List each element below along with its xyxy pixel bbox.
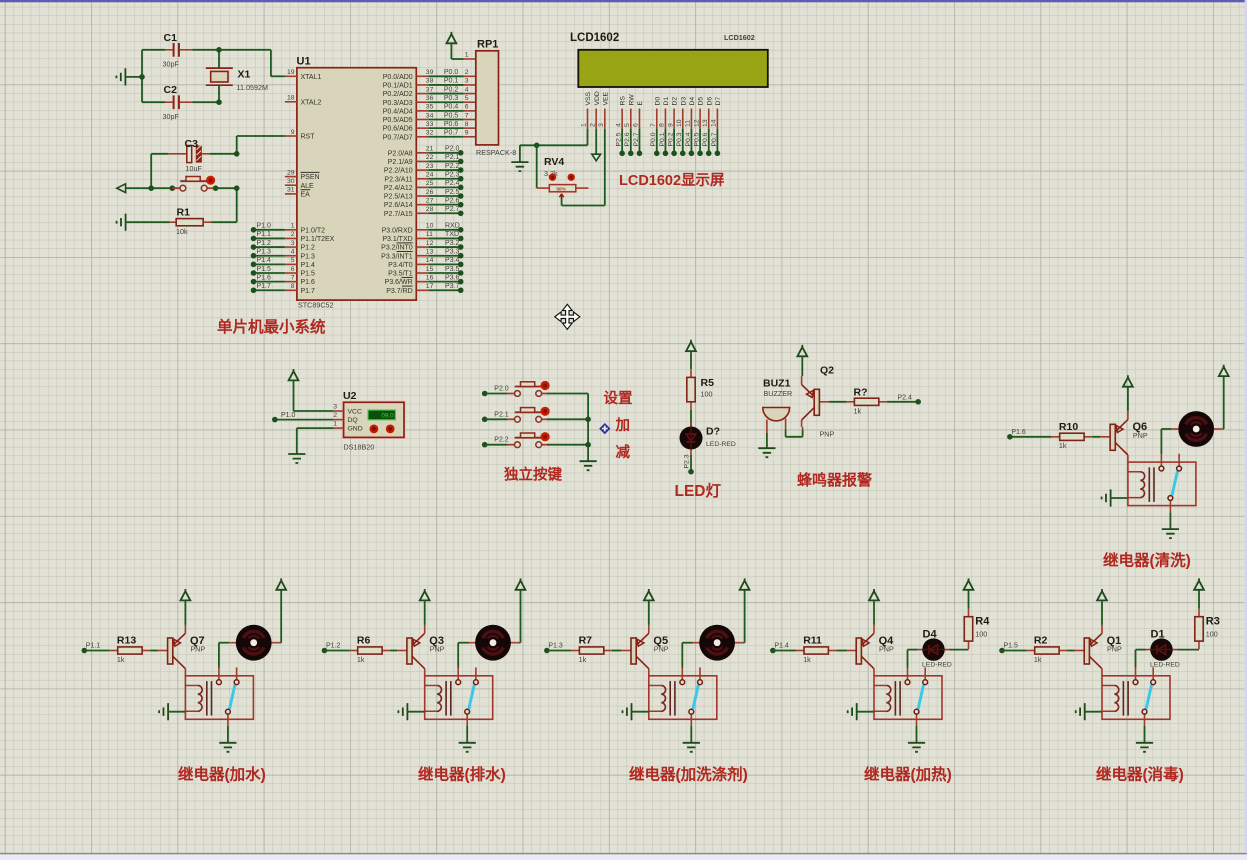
svg-text:单片机最小系统: 单片机最小系统: [217, 317, 326, 336]
wire Q3 collector to relay coil: [424, 675, 426, 677]
transistor Q6 (PNP): [1100, 411, 1128, 462]
push button P2.2: [507, 432, 550, 448]
svg-text:10: 10: [676, 119, 683, 127]
svg-text:R2: R2: [1034, 635, 1048, 647]
svg-text:29: 29: [287, 169, 295, 176]
svg-text:P1.7: P1.7: [301, 288, 316, 295]
svg-text:D0: D0: [654, 97, 661, 106]
wire net P1.4: [770, 643, 796, 654]
svg-text:P2.2: P2.2: [494, 437, 509, 444]
svg-text:1k: 1k: [1034, 655, 1042, 664]
transistor Q3 (PNP): [397, 625, 425, 676]
power arrow above U2: [289, 369, 299, 380]
svg-text:P3.4: P3.4: [445, 257, 460, 264]
wire Q7 collector to relay coil: [184, 675, 186, 677]
RV4 right lead: [576, 187, 589, 189]
relay 排水: [425, 667, 493, 726]
svg-text:PNP: PNP: [820, 430, 835, 439]
wire net P1.3 to U1.4: [251, 249, 285, 259]
svg-text:8: 8: [465, 121, 469, 128]
svg-text:7: 7: [650, 123, 657, 127]
wire R2 to Q1 base: [1067, 650, 1074, 652]
resistor R?: [846, 398, 886, 405]
motor at relay 加洗涤剂: [693, 625, 744, 661]
U1 pin 16 P3.6/WR: [385, 274, 434, 286]
LCD pin 14 D7: [711, 97, 722, 157]
wire button P2.2 to bus: [547, 444, 588, 446]
svg-text:10: 10: [426, 223, 434, 230]
resistor R2: [1027, 647, 1067, 654]
wire net RXD: [428, 223, 463, 233]
svg-text:28: 28: [426, 206, 434, 213]
wire net P1.7 to U1.8: [251, 283, 285, 293]
U1 pin 1 P1.0/T2: [285, 223, 325, 235]
svg-text:P2.3: P2.3: [445, 172, 460, 179]
svg-text:1: 1: [333, 421, 337, 428]
U1 pin 28 P2.7/A15: [384, 206, 434, 218]
svg-text:R13: R13: [117, 635, 136, 647]
svg-text:继电器(清洗): 继电器(清洗): [1103, 551, 1191, 570]
svg-text:P2.0: P2.0: [445, 146, 460, 153]
power arrow above Q4: [869, 589, 879, 600]
wire power to Q1 emitter: [1101, 600, 1103, 625]
svg-text:D3: D3: [680, 97, 687, 106]
U1 pin 3 P1.2: [285, 240, 315, 252]
svg-text:RST: RST: [301, 134, 316, 141]
wire net P1.1 to U1.2: [251, 231, 285, 241]
wire P0.1 U1 to RP1 pin 3: [428, 78, 476, 85]
wire C3 left branch down: [150, 154, 152, 188]
node at X1 bottom: [216, 99, 222, 105]
svg-text:P1.5: P1.5: [301, 271, 316, 278]
svg-text:15: 15: [426, 266, 434, 273]
svg-text:P2.4: P2.4: [898, 394, 913, 401]
wire net P1.6 to U1.7: [251, 274, 285, 284]
ground (left) at relay coil: [623, 703, 632, 720]
svg-text:EA: EA: [301, 192, 311, 199]
transistor Q4 (PNP): [847, 625, 875, 676]
wire D1 to R3: [1178, 649, 1200, 651]
wire P0.2 U1 to RP1 pin 4: [428, 86, 476, 93]
wire X1 node to XTAL1: [219, 49, 271, 51]
wire P0.4 U1 to RP1 pin 6: [428, 104, 476, 111]
wire R13 to Q7 base: [150, 650, 158, 652]
svg-text:5: 5: [291, 257, 295, 264]
svg-text:P2.2/A10: P2.2/A10: [384, 168, 413, 175]
svg-text:13: 13: [702, 119, 709, 127]
svg-text:13: 13: [426, 249, 434, 256]
svg-text:P1.4: P1.4: [774, 643, 789, 650]
svg-text:6: 6: [291, 266, 295, 273]
U1 pin 35 P0.4/AD4: [383, 104, 434, 116]
ground (left) at R1: [117, 214, 126, 231]
svg-text:P0.3/AD3: P0.3/AD3: [383, 100, 413, 107]
power arrow above motor: [276, 578, 286, 589]
LCD pin 4 RS: [615, 96, 626, 157]
wire R10 to Q6 base: [1092, 436, 1100, 438]
U1 pin 8 P1.7: [285, 283, 315, 295]
wire power to RP1 pin1: [450, 43, 452, 59]
wire net P1.3: [544, 643, 571, 654]
svg-text:LED-RED: LED-RED: [706, 441, 736, 448]
bus node P2.2: [585, 442, 591, 448]
svg-text:XTAL2: XTAL2: [301, 99, 322, 106]
power arrow above Q7: [181, 589, 191, 600]
svg-text:P1.7: P1.7: [257, 283, 272, 290]
svg-text:PNP: PNP: [879, 645, 894, 654]
node RST/C3: [234, 151, 240, 157]
svg-text:7: 7: [291, 274, 295, 281]
svg-text:R10: R10: [1059, 421, 1078, 433]
MCU U1 STC89C52 body: [297, 68, 416, 300]
svg-text:P0.4/AD4: P0.4/AD4: [383, 108, 413, 115]
svg-text:1k: 1k: [1059, 441, 1067, 450]
relay 消毒: [1102, 667, 1170, 726]
resistor R10: [1052, 433, 1092, 440]
svg-text:P3.0/RXD: P3.0/RXD: [382, 227, 413, 234]
svg-text:09.0: 09.0: [382, 413, 395, 420]
wire relay common to ground: [1144, 726, 1146, 742]
wire Q4 collector to relay coil: [873, 675, 875, 677]
svg-text:P1.5: P1.5: [257, 266, 272, 273]
resistor R5: [687, 369, 695, 409]
U1 pin 24 P2.3/A11: [384, 172, 433, 184]
svg-text:5: 5: [465, 95, 469, 102]
wire power to Q6 emitter: [1127, 387, 1129, 412]
svg-text:P1.1: P1.1: [257, 231, 272, 238]
U1 pin 18 XTAL2: [285, 95, 322, 107]
junction node C1/C2 left: [141, 50, 143, 102]
svg-text:P2.6: P2.6: [445, 197, 460, 204]
wire net P2.4: [428, 180, 463, 190]
node button left: [170, 185, 176, 191]
svg-text:BUZ1: BUZ1: [763, 378, 791, 390]
capacitor C3 (electrolytic): [151, 145, 237, 162]
ground (left) at relay coil: [848, 703, 857, 720]
svg-text:12: 12: [426, 240, 434, 247]
U1 pin 12 P3.2/INT0: [381, 240, 433, 252]
ground (left) at relay coil: [159, 703, 168, 720]
svg-text:14: 14: [711, 119, 718, 127]
U1 pin 9 RST: [285, 129, 315, 141]
svg-text:VSS: VSS: [585, 91, 592, 105]
svg-text:RESPACK-8: RESPACK-8: [476, 148, 516, 157]
svg-text:24: 24: [426, 172, 434, 179]
wire R3 to power: [1198, 590, 1200, 609]
wire motor to power: [520, 642, 521, 644]
wire R11 to Q4 base: [836, 650, 846, 652]
wire relay common to ground: [227, 726, 229, 742]
svg-text:P0.5: P0.5: [444, 112, 459, 119]
svg-text:100: 100: [975, 629, 987, 638]
svg-text:VDD: VDD: [594, 91, 601, 105]
motor at relay 加水: [229, 625, 280, 661]
svg-text:P0.1/AD1: P0.1/AD1: [383, 83, 413, 90]
U1 pin 27 P2.6/A14: [384, 197, 434, 209]
svg-text:P0.3: P0.3: [444, 95, 459, 102]
wire relay common to ground: [916, 726, 918, 742]
svg-text:减: 减: [616, 443, 631, 461]
svg-text:4: 4: [465, 86, 469, 93]
button common bus: [587, 394, 589, 462]
svg-text:P0.2: P0.2: [444, 86, 459, 93]
U1 pin 4 P1.3: [285, 249, 315, 261]
wire P0.0 U1 to RP1 pin 2: [428, 69, 476, 76]
capacitor C2: [142, 95, 219, 109]
svg-text:3: 3: [291, 240, 295, 247]
power arrow above Q5: [644, 589, 654, 600]
svg-text:DS18B20: DS18B20: [344, 443, 375, 452]
svg-text:3: 3: [465, 78, 469, 85]
wire net P3.5: [428, 266, 463, 276]
power arrow above R4: [964, 578, 974, 589]
U1 pin 14 P3.4/T0: [388, 257, 433, 269]
wire net P2.2: [482, 437, 509, 448]
svg-text:P3.7/RD: P3.7/RD: [386, 288, 412, 295]
power arrow above R5: [686, 340, 696, 351]
svg-text:P1.3: P1.3: [301, 253, 316, 260]
svg-text:11: 11: [426, 231, 433, 238]
push button P2.0: [507, 381, 550, 397]
RV4 wiper arrow: [559, 194, 563, 199]
wire power to Q7 emitter: [184, 600, 186, 625]
ground for buttons: [580, 461, 597, 470]
svg-text:PNP: PNP: [1107, 645, 1122, 654]
wire VEE down to RV4 wiper: [604, 129, 606, 206]
LCD pin 2 VDD: [589, 91, 600, 129]
LCD pin 13 D6: [702, 97, 713, 157]
LCD pin 3 VEE: [598, 91, 609, 128]
svg-text:30pF: 30pF: [163, 112, 180, 121]
resistor R7: [571, 647, 611, 654]
svg-text:RW: RW: [628, 94, 635, 106]
svg-text:P0.7: P0.7: [444, 130, 459, 137]
wire motor to power: [280, 642, 281, 644]
U1 pin 30 ALE: [285, 178, 314, 190]
svg-text:P1.0: P1.0: [257, 223, 272, 230]
resistor R11: [796, 647, 836, 654]
wire BUZ1 right leg to Q2 collector: [785, 418, 787, 429]
wire RST net: [237, 135, 285, 137]
U1 pin 25 P2.4/A12: [384, 180, 434, 192]
svg-text:D7: D7: [715, 97, 722, 106]
svg-text:继电器(排水): 继电器(排水): [418, 765, 506, 784]
U1 pin 10 P3.0/RXD: [382, 223, 434, 235]
svg-text:50%: 50%: [557, 187, 566, 192]
power arrow above RP1: [447, 32, 457, 43]
U2 button 1: [370, 425, 379, 434]
svg-text:E: E: [637, 101, 644, 106]
svg-text:R6: R6: [357, 635, 371, 647]
wire power to Q4 emitter: [873, 600, 875, 625]
bus node P2.1: [585, 417, 591, 423]
svg-text:GND: GND: [348, 426, 363, 433]
wire net P3.2: [428, 240, 463, 250]
svg-text:P0.6: P0.6: [444, 121, 459, 128]
move cursor icon (large, white): [555, 304, 580, 329]
ground below relay: [1162, 529, 1179, 538]
wire VDD to power-down arrow: [595, 129, 597, 155]
svg-text:8: 8: [659, 123, 666, 127]
svg-text:35: 35: [426, 104, 434, 111]
power arrow above Q6: [1123, 375, 1133, 386]
wire net P2.0: [428, 146, 463, 156]
svg-text:8: 8: [291, 283, 295, 290]
svg-text:P1.6: P1.6: [257, 274, 272, 281]
svg-text:6: 6: [465, 104, 469, 111]
svg-text:P3.6/WR: P3.6/WR: [385, 279, 413, 286]
wire R? to P2.4: [887, 394, 921, 404]
wire relay contact up to LED: [907, 650, 909, 668]
svg-text:34: 34: [426, 112, 434, 119]
svg-text:P1.6: P1.6: [301, 279, 316, 286]
wire P0.5 U1 to RP1 pin 7: [428, 112, 476, 119]
DS18B20 U2 body: [343, 402, 405, 439]
svg-text:4: 4: [291, 249, 295, 256]
svg-text:D4: D4: [689, 97, 696, 106]
svg-text:P2.4: P2.4: [445, 180, 460, 187]
svg-text:1: 1: [465, 52, 469, 59]
svg-text:P2.7/A15: P2.7/A15: [384, 211, 413, 218]
svg-text:10k: 10k: [176, 227, 188, 236]
wire power to Q3 emitter: [424, 600, 426, 625]
U1 pin 32 P0.7/AD7: [383, 130, 434, 142]
U2 button 2: [386, 425, 395, 434]
node button right: [213, 185, 219, 191]
svg-text:BUZZER: BUZZER: [764, 389, 793, 398]
svg-text:蜂鸣器报警: 蜂鸣器报警: [797, 471, 872, 489]
wire net P3.7: [428, 283, 463, 293]
svg-text:P0.0/AD0: P0.0/AD0: [383, 74, 413, 81]
svg-text:C1: C1: [164, 32, 178, 44]
svg-text:14: 14: [426, 257, 434, 264]
potentiometer RV4 body: [549, 185, 576, 192]
wire R4 to power: [968, 590, 970, 609]
ground below relay: [219, 743, 236, 752]
svg-text:P2.0/A8: P2.0/A8: [388, 150, 413, 157]
U1 pin 23 P2.2/A10: [384, 163, 434, 175]
wire net P1.5: [999, 643, 1026, 654]
wire power to Q5 emitter: [648, 600, 650, 625]
svg-text:P0.6/AD6: P0.6/AD6: [383, 126, 413, 133]
svg-text:加: 加: [615, 417, 631, 434]
wire net P3.6: [428, 274, 463, 284]
crystal X1: [206, 50, 233, 102]
svg-text:P1.3: P1.3: [548, 643, 563, 650]
wire net TXD: [428, 231, 463, 241]
ground (left) at relay coil: [1102, 489, 1111, 506]
node at X1 top: [216, 47, 222, 53]
U1 pin 29 PSEN: [285, 169, 320, 181]
resistor R3 (vertical): [1195, 609, 1203, 649]
svg-text:38: 38: [426, 78, 434, 85]
wire button P2.0 to bus: [547, 393, 588, 395]
svg-text:100: 100: [1206, 629, 1218, 638]
svg-text:11.0592M: 11.0592M: [237, 83, 268, 92]
svg-text:5: 5: [624, 123, 631, 127]
svg-text:30: 30: [287, 178, 295, 185]
wire button P2.1 to bus: [547, 418, 588, 420]
svg-text:P1.1: P1.1: [86, 643, 101, 650]
wire net P1.0 to U2 DQ: [272, 412, 334, 422]
transistor Q5 (PNP): [621, 625, 649, 676]
wire power to U2 VCC: [293, 380, 295, 411]
svg-text:16: 16: [426, 274, 434, 281]
svg-text:6: 6: [633, 123, 640, 127]
svg-text:P1.3: P1.3: [257, 249, 272, 256]
power arrow above motor: [1219, 365, 1229, 376]
resistor pack RP1 body: [476, 51, 499, 145]
ground below RP1 area: [519, 145, 521, 162]
svg-text:P2.5: P2.5: [445, 189, 460, 196]
wire P0.7 U1 to RP1 pin 9: [428, 130, 476, 137]
wire net P1.2 to U1.3: [251, 240, 285, 250]
relay 加热: [874, 667, 942, 726]
svg-text:P0.2/AD2: P0.2/AD2: [383, 91, 413, 98]
input terminal arrow (reset row): [117, 184, 126, 193]
svg-text:18: 18: [287, 95, 295, 102]
svg-text:C3: C3: [185, 138, 199, 150]
svg-text:36: 36: [426, 95, 434, 102]
svg-text:R4: R4: [975, 616, 990, 628]
svg-text:3: 3: [333, 404, 337, 411]
svg-text:P2.1: P2.1: [494, 411, 509, 418]
U1 pin 2 P1.1/T2EX: [285, 231, 335, 243]
wire net P2.1: [482, 411, 509, 422]
motor at relay 排水: [469, 625, 520, 661]
wire net P1.5 to U1.6: [251, 266, 285, 276]
wire net P2.2: [428, 163, 463, 173]
node C3 branch: [148, 185, 154, 191]
ground (left) at relay coil: [398, 703, 407, 720]
svg-text:PNP: PNP: [190, 645, 205, 654]
svg-text:P3.2/INT0: P3.2/INT0: [381, 245, 413, 252]
LCD pin 1 VSS: [581, 91, 592, 128]
wire P0.3 U1 to RP1 pin 5: [428, 95, 476, 102]
wire Q2 base to R?: [829, 401, 846, 403]
svg-text:31: 31: [287, 187, 295, 194]
svg-text:LCD1602: LCD1602: [724, 33, 755, 42]
svg-text:P2.4/A12: P2.4/A12: [384, 185, 413, 192]
LCD pin 8 D1: [659, 97, 670, 157]
transistor Q2 (PNP): [802, 376, 830, 427]
svg-text:P2.1/A9: P2.1/A9: [388, 159, 413, 166]
wire relay contact up to LED: [1135, 650, 1137, 668]
svg-text:R5: R5: [701, 377, 715, 389]
wire power to R5: [690, 351, 692, 369]
wire reset button row: [126, 187, 177, 189]
svg-text:D2: D2: [672, 97, 679, 106]
relay 加水: [185, 667, 253, 726]
wire motor to power: [744, 642, 745, 644]
svg-text:P2.2: P2.2: [445, 163, 460, 170]
LCD pin 10 D3: [676, 97, 687, 157]
svg-text:9: 9: [465, 130, 469, 137]
transistor Q7 (PNP): [158, 625, 186, 676]
wire Q6 collector to relay coil: [1127, 461, 1129, 463]
svg-text:P1.0: P1.0: [281, 412, 296, 419]
U1 pin 26 P2.5/A13: [384, 189, 434, 201]
svg-text:P1.2: P1.2: [301, 245, 316, 252]
motor at relay 清洗: [1172, 411, 1223, 447]
svg-text:9: 9: [291, 129, 295, 136]
relay 清洗: [1128, 454, 1196, 513]
svg-text:P1.2: P1.2: [257, 240, 272, 247]
wire R7 to Q5 base: [612, 650, 622, 652]
wire relay common to ground: [1169, 512, 1171, 528]
resistor R6: [350, 647, 390, 654]
svg-text:11: 11: [685, 120, 692, 127]
